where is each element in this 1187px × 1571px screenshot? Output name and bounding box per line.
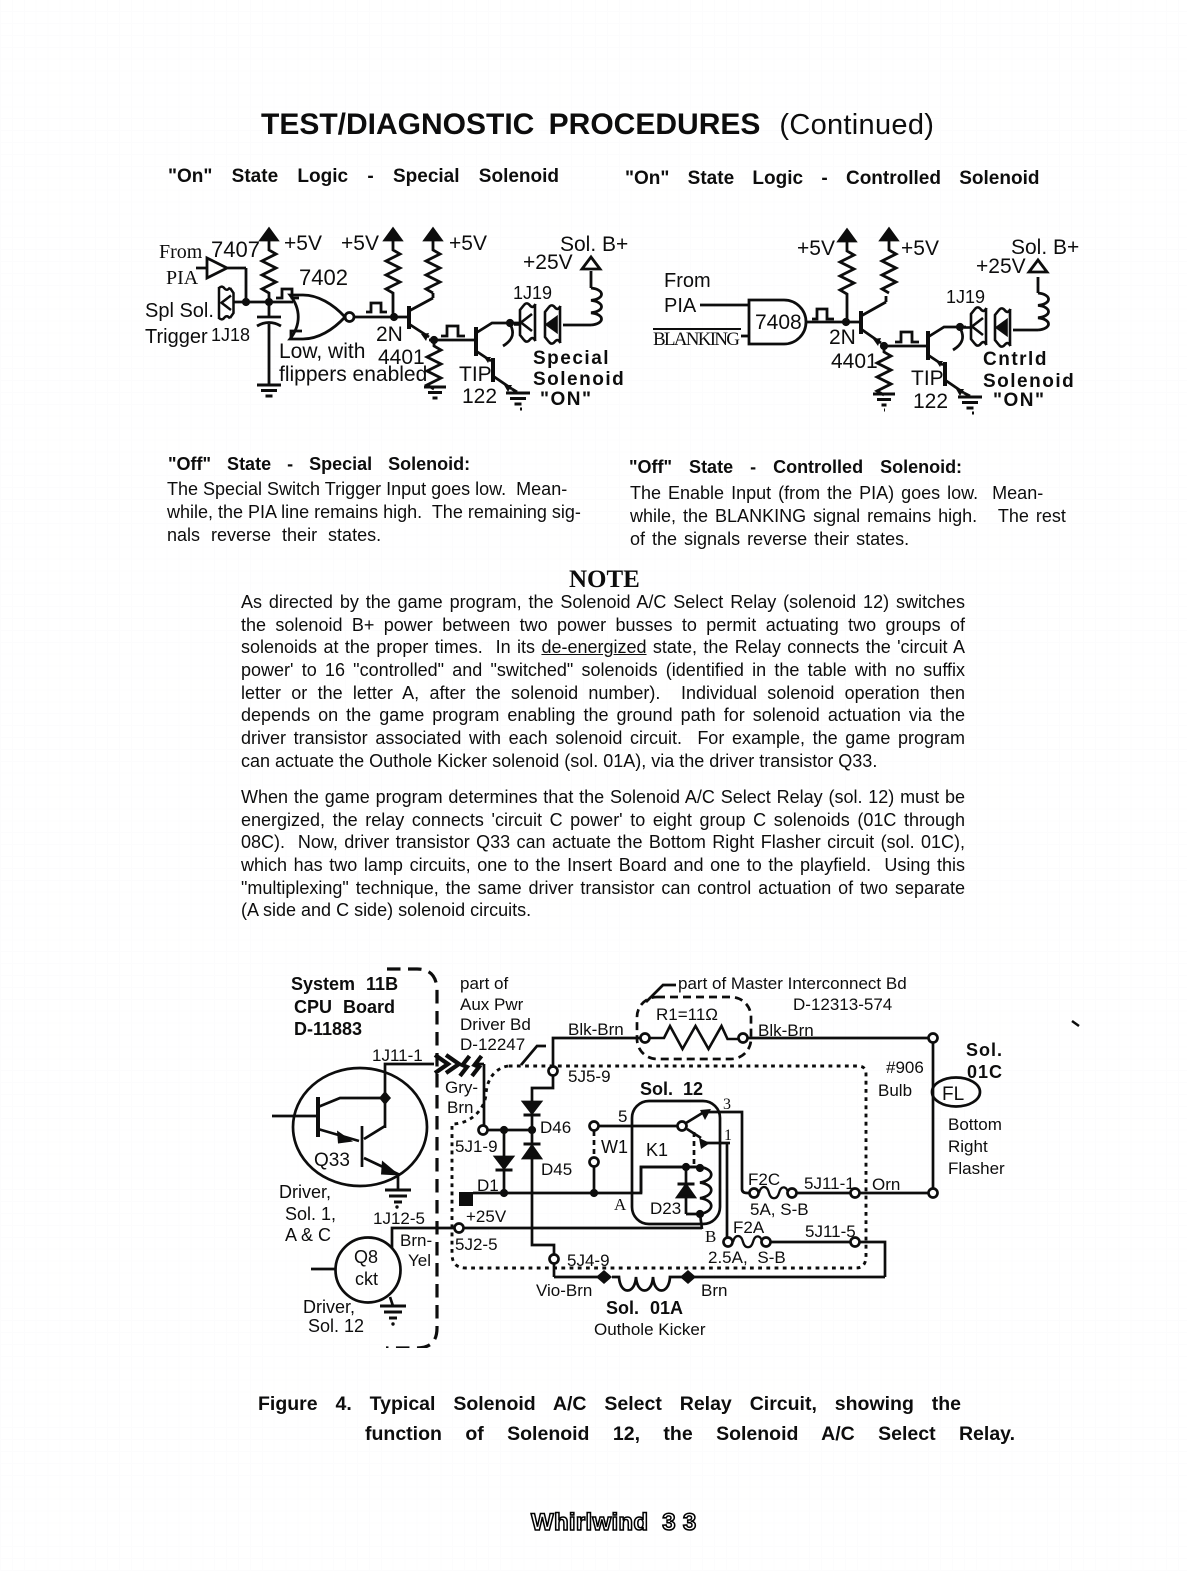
svg-text:Trigger: Trigger xyxy=(145,326,208,348)
svg-text:Sol.: Sol. xyxy=(966,1040,1003,1060)
power +5V arrow 3 xyxy=(425,229,441,246)
svg-text:+5V: +5V xyxy=(449,232,487,255)
diode D1 xyxy=(496,1130,513,1192)
ground for RD xyxy=(424,387,446,398)
node junction dot Q3 base xyxy=(842,318,850,326)
CPU board dashed boundary xyxy=(386,969,437,1348)
label TIP 122 xyxy=(911,367,948,413)
svg-text:Gry-: Gry- xyxy=(445,1078,478,1097)
svg-text:F2C: F2C xyxy=(748,1170,780,1189)
node junction dot at Q1 base xyxy=(390,313,398,321)
svg-text:1J19: 1J19 xyxy=(513,283,552,303)
svg-text:Yel: Yel xyxy=(408,1251,431,1270)
pulse waveform glyph 4 xyxy=(812,309,834,319)
figure caption xyxy=(258,1393,961,1416)
stray ink mark xyxy=(1072,1021,1079,1026)
ground for Q8 xyxy=(380,1297,406,1326)
svg-text:Spl Sol.: Spl Sol. xyxy=(145,300,214,322)
SVG schematic: solenoid A/C select relay circuit (placeholder) xyxy=(240,958,1100,1348)
resistor RD xyxy=(427,340,441,389)
svg-text:D46: D46 xyxy=(540,1118,571,1137)
buffer U1 7407 xyxy=(196,258,246,278)
svg-text:5J11-5: 5J11-5 xyxy=(805,1222,856,1241)
label 2N 4401 xyxy=(829,326,878,373)
fuse F2A xyxy=(724,1236,771,1247)
svg-text:1: 1 xyxy=(724,1127,732,1144)
svg-text:Sol. B+: Sol. B+ xyxy=(560,233,628,256)
right column header xyxy=(625,168,1039,190)
diode D46 xyxy=(524,1102,541,1130)
solenoid coil L1 xyxy=(591,271,602,325)
connector 1J11-1 chevrons xyxy=(435,1055,482,1076)
svg-text:Outhole Kicker: Outhole Kicker xyxy=(594,1320,706,1339)
svg-text:A & C: A & C xyxy=(285,1225,331,1245)
wire trigger input xyxy=(233,301,293,304)
svg-text:CPU Board: CPU Board xyxy=(294,997,395,1017)
jumper W1 xyxy=(590,1122,599,1190)
pulse waveform glyph 5 xyxy=(895,332,919,342)
wire coil bottom to node B xyxy=(700,1214,702,1229)
svg-text:Right: Right xyxy=(948,1137,988,1156)
junction diamond at Q33 collector xyxy=(379,1091,391,1105)
relay coil riser xyxy=(641,1167,686,1193)
right off-state body xyxy=(630,482,1070,551)
resistor RA xyxy=(262,246,276,298)
page footer xyxy=(531,1509,697,1537)
transistor Q2 TIP122 xyxy=(476,323,520,392)
junction dot W1 on bus A xyxy=(590,1189,598,1197)
connector 1J19 left half xyxy=(964,307,987,345)
power +5V arrow 1 xyxy=(839,230,855,247)
svg-text:D-12247: D-12247 xyxy=(460,1035,525,1054)
left off-state heading xyxy=(168,454,470,475)
svg-text:Driver,: Driver, xyxy=(279,1182,331,1202)
svg-text:2N: 2N xyxy=(829,326,856,349)
svg-text:"ON": "ON" xyxy=(540,389,593,410)
NOR gate U2 7402 xyxy=(290,295,354,339)
svg-text:B: B xyxy=(705,1227,716,1246)
label BLANKING (active low) xyxy=(653,329,740,350)
power +5V arrow 2 xyxy=(881,229,897,246)
svg-text:part of: part of xyxy=(460,974,508,993)
svg-text:5J2-5: 5J2-5 xyxy=(455,1235,498,1254)
junction dot coil bottom xyxy=(696,1210,704,1218)
svg-text:Driver Bd: Driver Bd xyxy=(460,1015,531,1034)
label Driver, Sol. 12 xyxy=(303,1297,364,1336)
ground for Q4 emitter xyxy=(958,397,982,413)
svg-text:4401: 4401 xyxy=(378,346,425,369)
relay actuation dashed link xyxy=(693,1132,696,1166)
svg-text:Brn: Brn xyxy=(701,1281,727,1300)
label Q8 ckt xyxy=(354,1247,378,1289)
connector 5J2-5 circle xyxy=(455,1224,464,1233)
node junction dot Q2 collector xyxy=(506,319,514,327)
wire Blk-Brn to R1 xyxy=(553,1038,641,1067)
svg-text:2.5A, S-B: 2.5A, S-B xyxy=(708,1248,786,1267)
wire F2C to 5J11-1 xyxy=(797,1192,929,1195)
right off-state heading xyxy=(629,457,962,478)
transistor Q3 2N4401 xyxy=(861,296,886,346)
relay coil K1 xyxy=(686,1167,711,1214)
capacitor C1 xyxy=(257,302,281,384)
label 2N 4401 xyxy=(376,323,425,369)
svg-text:1J19: 1J19 xyxy=(946,287,985,307)
svg-text:5J4-9: 5J4-9 xyxy=(567,1251,610,1270)
svg-text:Solenoid: Solenoid xyxy=(983,371,1075,392)
wire PIA to AND gate xyxy=(700,304,749,307)
solenoid coil L2 xyxy=(1038,277,1049,330)
svg-text:Sol. 1,: Sol. 1, xyxy=(285,1204,336,1224)
wire AND output to Q3 base xyxy=(807,321,861,324)
svg-text:7407: 7407 xyxy=(211,237,260,262)
ground for capacitor xyxy=(257,385,281,396)
svg-text:1J18: 1J18 xyxy=(211,325,250,345)
svg-text:PIA: PIA xyxy=(664,295,697,317)
svg-text:#906: #906 xyxy=(886,1058,924,1077)
svg-text:D-12313-574: D-12313-574 xyxy=(793,995,892,1014)
junction diamond Vio-Brn xyxy=(596,1270,612,1284)
svg-text:Brn: Brn xyxy=(447,1098,473,1117)
transistor Q33 circle xyxy=(293,1068,427,1186)
svg-text:122: 122 xyxy=(462,385,497,408)
wire F2A to 5J11-5 xyxy=(771,1242,885,1277)
resistor RE xyxy=(840,247,854,322)
wire Q33 collector to 1J11-1 xyxy=(385,1064,434,1128)
AND gate U3 7408 xyxy=(749,300,806,344)
junction dot D1 on bus A xyxy=(500,1189,508,1197)
pulse waveform glyph 2 xyxy=(366,303,387,312)
label Sol. 01C xyxy=(966,1040,1003,1082)
svg-text:5J11-1: 5J11-1 xyxy=(804,1174,855,1193)
wire 5J1-9 bus xyxy=(488,1129,535,1132)
svg-text:Blk-Brn: Blk-Brn xyxy=(568,1020,624,1039)
label System 11B CPU Board D-11883 xyxy=(291,974,398,1039)
svg-text:Driver,: Driver, xyxy=(303,1297,355,1317)
resistor R1 xyxy=(650,1026,739,1049)
power +5V arrow 2 xyxy=(385,229,401,246)
svg-text:5J1-9: 5J1-9 xyxy=(455,1137,498,1156)
svg-text:Vio-Brn: Vio-Brn xyxy=(536,1281,592,1300)
svg-text:4401: 4401 xyxy=(831,350,878,373)
svg-text:Q8: Q8 xyxy=(354,1247,378,1267)
transistor Q4 TIP122 xyxy=(928,327,970,396)
connector circle lamp top xyxy=(929,1034,938,1043)
svg-text:+5V: +5V xyxy=(797,237,835,260)
resistor RG xyxy=(877,346,891,395)
fuse F2C xyxy=(750,1187,797,1198)
label Driver, Sol. 1, A and C xyxy=(279,1182,336,1245)
SVG schematic: controlled solenoid (placeholder) xyxy=(648,224,1092,416)
connector 5J11-5 circle xyxy=(851,1238,860,1247)
svg-text:Aux Pwr: Aux Pwr xyxy=(460,995,524,1014)
lamp FL bulb xyxy=(932,1078,980,1107)
wire contact 1 to F2A xyxy=(704,1143,730,1238)
wire W1 to pin 5 xyxy=(598,1125,677,1128)
svg-text:D23: D23 xyxy=(650,1199,681,1218)
svg-text:ckt: ckt xyxy=(355,1269,378,1289)
label part of Aux Pwr Driver Bd D-12247 xyxy=(460,974,531,1054)
wire NOR output to Q1 base xyxy=(354,316,409,319)
power +25V open arrow xyxy=(1029,260,1047,272)
power +25V open arrow xyxy=(582,257,600,269)
wire buffer output to node xyxy=(245,268,248,302)
NOTE heading xyxy=(569,566,640,594)
connector 5J11-1 circle xyxy=(851,1189,860,1198)
junction dot D1-5J1-9 xyxy=(500,1126,508,1134)
connector 1J19 right half xyxy=(545,305,561,343)
note paragraph 2 xyxy=(241,787,965,923)
svg-text:PIA: PIA xyxy=(166,267,199,289)
pulse waveform glyph 3 xyxy=(441,326,465,336)
connector 5J1-9 circle xyxy=(479,1126,488,1135)
junction dot coil top left xyxy=(682,1163,690,1171)
label Bottom Right Flasher xyxy=(948,1115,1005,1178)
svg-text:7408: 7408 xyxy=(755,311,802,334)
svg-text:System 11B: System 11B xyxy=(291,974,398,994)
relay pin 5 circle xyxy=(678,1122,687,1131)
svg-text:D45: D45 xyxy=(541,1160,572,1179)
left off-state body xyxy=(167,478,597,547)
svg-text:Special: Special xyxy=(533,348,610,369)
resistor RF xyxy=(882,246,896,293)
svg-text:"ON": "ON" xyxy=(993,390,1046,411)
wire Q3 emitter to Q4 base xyxy=(881,345,928,348)
svg-text:From: From xyxy=(664,270,711,292)
relay K1 box xyxy=(632,1101,720,1224)
svg-text:F2A: F2A xyxy=(733,1218,765,1237)
R1 dashed box xyxy=(637,997,751,1059)
ground for Q2 emitter xyxy=(506,393,530,409)
solenoid coil Sol 01A xyxy=(612,1277,685,1291)
svg-text:A: A xyxy=(614,1195,627,1214)
node junction dot Q1 emitter xyxy=(430,336,438,344)
pulse waveform glyph 1 xyxy=(276,289,299,298)
label Brn- Yel xyxy=(400,1231,432,1270)
label Spl Sol. Trigger xyxy=(145,300,250,348)
wire into Q8 xyxy=(311,1268,336,1271)
svg-text:Sol. 01A: Sol. 01A xyxy=(606,1298,683,1318)
svg-text:2N: 2N xyxy=(376,323,403,346)
driver circle Q8 ckt xyxy=(336,1238,401,1303)
svg-text:Sol. B+: Sol. B+ xyxy=(1011,236,1079,259)
relay armature to contact 1 (dashed) xyxy=(687,1129,710,1149)
connector 5J4-9 circle and wire xyxy=(550,1255,559,1278)
svg-text:+25V: +25V xyxy=(466,1207,507,1226)
wire connector to coil xyxy=(1013,329,1038,332)
power +5V arrow 1 xyxy=(261,229,277,246)
connector 1J19 left half xyxy=(514,303,536,341)
transistor Q1 2N4401 xyxy=(409,293,433,341)
diode D23 xyxy=(678,1167,695,1214)
node junction dot Q3 emitter xyxy=(880,342,888,350)
svg-text:From: From xyxy=(159,241,203,263)
node junction dot Q4 collector xyxy=(956,323,964,331)
junction diamond Brn xyxy=(680,1270,696,1284)
svg-text:Bulb: Bulb xyxy=(878,1081,912,1100)
wire R1 to lamp branch xyxy=(747,1037,929,1040)
junction dot coil top right xyxy=(696,1164,704,1172)
svg-text:3: 3 xyxy=(723,1096,731,1113)
page title xyxy=(261,108,934,142)
label Low, with flippers enabled xyxy=(279,340,427,386)
resistor RB xyxy=(386,246,400,317)
svg-text:FL: FL xyxy=(942,1084,964,1105)
connector 5J5-9 circle xyxy=(549,1067,558,1076)
connector 1J18 xyxy=(219,287,234,320)
ground for Q33 emitter xyxy=(385,1175,411,1209)
NOR gate lower input stub xyxy=(291,331,302,339)
ground for RG xyxy=(873,394,895,410)
connector circle R1 right xyxy=(739,1034,748,1043)
left column header xyxy=(168,166,559,188)
svg-text:TIP: TIP xyxy=(459,363,492,386)
wire contact 3 to F2C xyxy=(708,1112,750,1193)
svg-text:122: 122 xyxy=(913,390,948,413)
svg-text:K1: K1 xyxy=(646,1140,668,1160)
label From PIA xyxy=(664,270,711,317)
wire connector to coil xyxy=(563,324,591,327)
svg-text:part of Master Interconnect Bd: part of Master Interconnect Bd xyxy=(678,974,907,993)
transistor Q33 internals xyxy=(272,1097,400,1176)
label TIP 122 xyxy=(459,363,497,408)
connector 1J19 right half xyxy=(995,308,1011,346)
label Cntrld Solenoid ON xyxy=(983,349,1075,411)
svg-text:1J12-5: 1J12-5 xyxy=(373,1209,425,1228)
svg-text:Sol. 12: Sol. 12 xyxy=(308,1316,364,1336)
BLANKING overline xyxy=(653,328,741,330)
relay armature to contact 3 xyxy=(686,1109,711,1123)
wire 5J5-9 to D46 xyxy=(532,1076,553,1102)
node junction dot RA xyxy=(265,298,273,306)
svg-text:1J11-1: 1J11-1 xyxy=(372,1046,423,1065)
svg-text:5J5-9: 5J5-9 xyxy=(568,1067,611,1086)
svg-text:W1: W1 xyxy=(601,1137,628,1157)
label From PIA xyxy=(159,241,203,289)
Aux Pwr Driver Bd dotted boundary xyxy=(452,1066,866,1268)
label Gry- Brn xyxy=(445,1078,478,1117)
SVG schematic: special solenoid (placeholder) xyxy=(140,224,660,412)
note paragraph 1 xyxy=(241,592,965,774)
leader slash to Aux board xyxy=(521,1046,546,1065)
svg-text:Flasher: Flasher xyxy=(948,1159,1005,1178)
svg-text:D-11883: D-11883 xyxy=(294,1019,362,1039)
diode D45 xyxy=(524,1130,555,1254)
svg-text:R1=11Ω: R1=11Ω xyxy=(656,1005,718,1024)
svg-text:7402: 7402 xyxy=(299,265,348,290)
svg-text:5: 5 xyxy=(618,1107,627,1126)
svg-text:Sol. 12: Sol. 12 xyxy=(640,1079,703,1099)
svg-text:+5V: +5V xyxy=(901,237,939,260)
svg-text:Orn: Orn xyxy=(872,1175,900,1194)
svg-text:+5V: +5V xyxy=(284,232,322,255)
svg-text:Bottom: Bottom xyxy=(948,1115,1002,1134)
leader hook to R1 box xyxy=(646,985,676,1002)
junction dot D46-5J1-9 xyxy=(528,1126,536,1134)
svg-text:Q33: Q33 xyxy=(314,1150,350,1171)
wire 1J12-5 Brn-Yel bus xyxy=(392,1228,702,1248)
resistor RC xyxy=(426,246,440,293)
wire +25V bus A xyxy=(473,1167,700,1193)
wire BLANKING to AND gate xyxy=(741,335,749,338)
label #906 Bulb xyxy=(878,1058,924,1100)
wire Gry-Brn to 5J1-9 xyxy=(483,1064,486,1125)
wire lamp branch vertical xyxy=(932,1042,935,1189)
svg-text:TIP: TIP xyxy=(911,367,944,390)
svg-text:01C: 01C xyxy=(967,1062,1003,1082)
svg-text:+5V: +5V xyxy=(341,232,379,255)
connector circle lamp bottom xyxy=(929,1189,938,1198)
svg-text:Solenoid: Solenoid xyxy=(533,369,625,390)
connector circle R1 left xyxy=(641,1034,650,1043)
svg-text:Brn-: Brn- xyxy=(400,1231,432,1250)
wire Q1 emitter to Q2 base xyxy=(429,339,476,342)
node junction dot xyxy=(242,298,250,306)
svg-text:5A, S-B: 5A, S-B xyxy=(750,1200,809,1219)
wire Vio-Brn xyxy=(554,1276,885,1279)
svg-text:Cntrld: Cntrld xyxy=(983,349,1048,370)
svg-text:Low, with: Low, with xyxy=(279,340,365,363)
svg-text:BLANKING: BLANKING xyxy=(653,329,740,350)
label Special Solenoid ON xyxy=(533,348,625,410)
terminal +25V square xyxy=(459,1192,473,1206)
